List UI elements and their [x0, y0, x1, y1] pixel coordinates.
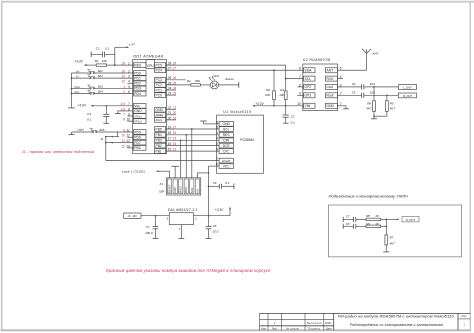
svg-text:LIGHT: LIGHT: [222, 159, 231, 163]
svg-text:12: 12: [121, 144, 125, 148]
svg-text:GND: GND: [134, 109, 142, 113]
svg-text:PD3: PD3: [134, 87, 141, 91]
svg-text:10.0: 10.0: [213, 230, 219, 234]
svg-text:4K7: 4K7: [366, 107, 372, 111]
svg-text:Rout: Rout: [327, 94, 334, 98]
svg-text:10: 10: [121, 134, 125, 138]
svg-text:PD7: PD7: [134, 141, 141, 145]
svg-text:C3: C3: [87, 112, 91, 116]
svg-text:32: 32: [121, 80, 125, 84]
svg-text:Выполнил: Выполнил: [307, 321, 322, 325]
svg-text:0.1: 0.1: [105, 47, 110, 51]
svg-text:AVcc: AVcc: [156, 118, 163, 122]
svg-text:0.1: 0.1: [87, 118, 92, 122]
svg-text:C4: C4: [352, 82, 356, 86]
svg-text:+3.3V: +3.3V: [215, 208, 224, 212]
svg-text:PB2: PB2: [156, 144, 162, 148]
svg-text:CPU: CPU: [147, 64, 155, 68]
svg-text:PB0: PB0: [134, 146, 140, 150]
svg-text:8: 8: [299, 67, 301, 71]
svg-text:Радиоприёмник со сканированием: Радиоприёмник со сканированием и запомин…: [350, 323, 443, 327]
svg-text:к X7: к X7: [129, 42, 135, 46]
svg-text:R7: R7: [390, 236, 394, 240]
svg-text:Лист: Лист: [461, 315, 467, 318]
svg-text:R6: R6: [367, 101, 371, 105]
svg-text:+5.0V: +5.0V: [78, 104, 87, 108]
svg-text:VIM: VIM: [305, 104, 311, 108]
svg-text:R_OUT: R_OUT: [403, 94, 412, 98]
svg-text:PD1: PD1: [134, 76, 141, 80]
svg-text:SCK: SCK: [190, 188, 194, 194]
svg-text:10.0: 10.0: [370, 82, 376, 86]
svg-text:№ докум.: № докум.: [286, 327, 300, 330]
svg-text:+5...10V: +5...10V: [127, 214, 137, 218]
svg-text:SCL: SCL: [223, 127, 230, 131]
svg-text:PC5: PC5: [156, 63, 163, 67]
svg-text:C8: C8: [346, 222, 350, 226]
svg-text:100.0: 100.0: [145, 231, 153, 235]
svg-text:C8: C8: [213, 224, 217, 228]
svg-text:R9: R9: [366, 222, 370, 226]
svg-text:Дата: Дата: [326, 327, 332, 330]
svg-text:C2: C2: [291, 115, 295, 119]
svg-text:GND: GND: [156, 108, 164, 112]
svg-text:C7: C7: [146, 225, 150, 229]
svg-text:SCL: SCL: [305, 77, 312, 81]
svg-text:VCC: VCC: [223, 164, 231, 168]
svg-text:Красным цветом указаны номера: Красным цветом указаны номера выводов дл…: [106, 268, 271, 273]
svg-text:DIN: DIN: [223, 139, 229, 143]
svg-text:RESET: RESET: [168, 184, 172, 193]
svg-text:PD4: PD4: [134, 92, 141, 96]
svg-text:C6: C6: [213, 181, 217, 185]
svg-text:4K7: 4K7: [390, 242, 396, 246]
svg-text:PD2: PD2: [134, 82, 141, 86]
svg-text:PB1: PB1: [156, 149, 162, 153]
svg-text:PCD8544: PCD8544: [240, 138, 254, 142]
svg-text:10.0: 10.0: [370, 91, 376, 95]
svg-text:VD1: VD1: [213, 74, 219, 78]
svg-text:Stereo: Stereo: [225, 77, 234, 81]
svg-text:+5v: +5v: [195, 188, 199, 193]
svg-text:Sb3: Sb3: [98, 84, 104, 88]
svg-text:PB5: PB5: [156, 127, 162, 131]
svg-text:C1: C1: [96, 47, 100, 51]
svg-text:MOSI: MOSI: [179, 186, 183, 193]
svg-text:U2 RDA5807M: U2 RDA5807M: [303, 58, 331, 62]
svg-text:Lout: Lout: [327, 85, 334, 89]
svg-text:GND: GND: [223, 122, 231, 126]
svg-text:7: 7: [216, 157, 218, 161]
svg-text:J1 - прямая или инверсная подс: J1 - прямая или инверсная подсветка: [21, 149, 95, 154]
svg-text:Лист: Лист: [272, 327, 278, 330]
svg-text:U1 Nokia5110: U1 Nokia5110: [223, 110, 251, 114]
svg-text:8: 8: [123, 118, 125, 122]
svg-text:2: 2: [194, 216, 197, 220]
svg-text:GND: GND: [173, 187, 177, 193]
svg-text:2018 г.: 2018 г.: [325, 322, 333, 325]
svg-text:R8: R8: [366, 214, 370, 218]
svg-text:к выв. 1 (29) DD1: к выв. 1 (29) DD1: [122, 170, 145, 174]
svg-text:X1: X1: [158, 182, 163, 186]
svg-text:FM-радио на модуле RDA5807M с: FM-радио на модуле RDA5807M с индикаторо…: [338, 313, 455, 318]
svg-text:J1: J1: [100, 137, 103, 141]
svg-text:Изм.: Изм.: [261, 327, 267, 330]
svg-text:390: 390: [195, 79, 200, 83]
svg-text:R4: R4: [280, 88, 284, 92]
svg-text:DD1 ATMEGA8: DD1 ATMEGA8: [133, 54, 163, 58]
svg-text:PD6: PD6: [134, 136, 141, 140]
svg-text:PB3: PB3: [156, 139, 162, 143]
svg-text:PD5: PD5: [134, 130, 141, 134]
svg-text:ANT: ANT: [327, 69, 334, 73]
svg-text:Sb5: Sb5: [99, 128, 105, 132]
svg-text:ANT: ANT: [372, 52, 380, 56]
svg-text:C7: C7: [346, 215, 350, 219]
svg-text:Подпись: Подпись: [308, 326, 321, 330]
svg-text:C5: C5: [352, 91, 356, 95]
svg-text:GP3: GP3: [305, 94, 312, 98]
svg-text:0.1: 0.1: [225, 181, 230, 185]
svg-text:7: 7: [123, 112, 125, 116]
svg-text:L_OUT: L_OUT: [403, 85, 412, 89]
svg-text:Sb2: Sb2: [98, 74, 104, 78]
svg-text:XTAL2: XTAL2: [134, 120, 142, 123]
svg-text:Vcc: Vcc: [134, 104, 140, 108]
svg-text:MISO: MISO: [184, 187, 188, 194]
svg-text:RES: RES: [223, 133, 231, 137]
svg-text:R2: R2: [187, 79, 191, 83]
svg-text:RCK: RCK: [327, 77, 335, 81]
svg-text:R5: R5: [390, 101, 394, 105]
svg-text:PC2: PC2: [156, 83, 163, 87]
svg-text:+3,3V: +3,3V: [74, 59, 83, 63]
svg-text:R1: R1: [95, 59, 99, 63]
svg-text:Подключение к монофоническому: Подключение к монофоническому УМЗЧ: [329, 194, 408, 199]
svg-text:DCE: DCE: [223, 144, 231, 148]
svg-text:SDA: SDA: [305, 69, 313, 73]
svg-text:GND: GND: [327, 104, 335, 108]
svg-text:0.1: 0.1: [291, 121, 296, 125]
svg-text:Light: Light: [77, 127, 83, 131]
svg-text:4K7: 4K7: [390, 107, 396, 111]
svg-text:S_OUT: S_OUT: [406, 218, 416, 222]
svg-text:D/C: D/C: [223, 149, 229, 153]
svg-text:R3: R3: [266, 88, 270, 92]
svg-text:PC0: PC0: [156, 93, 163, 97]
svg-text:RES: RES: [134, 63, 142, 67]
svg-text:PC1: PC1: [156, 88, 163, 92]
svg-text:XTAL1: XTAL1: [134, 115, 142, 118]
svg-text:PC4: PC4: [156, 69, 163, 73]
svg-text:PD0: PD0: [134, 71, 141, 75]
svg-text:PB4: PB4: [156, 133, 162, 137]
svg-text:PC3: PC3: [156, 78, 163, 82]
svg-text:Sb4: Sb4: [98, 90, 104, 94]
svg-text:DA1 AMS1117-3.3: DA1 AMS1117-3.3: [168, 208, 197, 212]
svg-text:GP2: GP2: [305, 85, 312, 89]
svg-text:AREF: AREF: [156, 113, 164, 117]
svg-text:Sb1: Sb1: [98, 69, 104, 73]
